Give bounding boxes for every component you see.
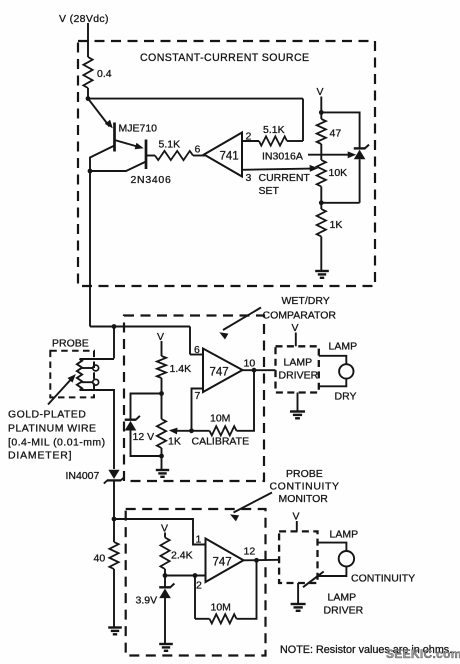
svg-text:V: V <box>293 511 300 523</box>
wire feedback vertical down <box>194 576 196 619</box>
wire lamp driver 2 slash <box>303 572 324 588</box>
dashed box PROBE <box>50 351 94 398</box>
lamp DRY bulb <box>339 364 353 378</box>
wire pin 2 lead <box>165 575 206 577</box>
node J junction (U2 output) <box>252 368 257 373</box>
svg-text:MONITOR: MONITOR <box>279 493 329 505</box>
wire probe branch down <box>113 327 115 359</box>
op-amp U3 747 (continuity) <box>206 539 244 583</box>
resistor R 40 <box>109 542 118 569</box>
svg-text:CONSTANT-CURRENT SOURCE: CONSTANT-CURRENT SOURCE <box>140 52 310 64</box>
wire probe branch to coil top <box>80 358 115 360</box>
node K junction <box>163 573 168 578</box>
wire driver2 to lamp top <box>318 543 347 551</box>
svg-text:CURRENT: CURRENT <box>259 172 311 184</box>
wire feedback top horizontal <box>88 98 303 100</box>
svg-text:5.1K: 5.1K <box>159 139 181 151</box>
svg-text:6: 6 <box>195 144 201 156</box>
svg-text:MJE710: MJE710 <box>119 123 158 135</box>
wire U2 output to lamp driver <box>243 369 276 371</box>
node I junction (pin7/10M) <box>189 428 194 433</box>
arrow into Q2 bar <box>135 143 144 150</box>
wire node H to ground <box>161 456 163 470</box>
svg-text:WET/DRY: WET/DRY <box>282 295 330 307</box>
svg-text:PROBE: PROBE <box>52 338 89 350</box>
svg-text:7: 7 <box>195 390 201 402</box>
svg-text:10M: 10M <box>210 413 230 425</box>
wire V to lamp driver 1 <box>295 333 297 347</box>
wire driver1 to lamp top <box>319 356 347 365</box>
arrow monitor pointer head <box>230 514 239 521</box>
transistor Q1 MJE710 base bar <box>113 123 116 152</box>
wire R40 to ground <box>113 569 115 628</box>
svg-text:1.4K: 1.4K <box>170 363 192 375</box>
svg-text:2.4K: 2.4K <box>171 550 193 562</box>
wire V to R1.4K <box>161 341 163 356</box>
wire feedback vertical to 5.1K <box>302 99 304 141</box>
wire pin 3 to pot wiper <box>242 169 312 170</box>
dashed box CONSTANT-CURRENT SOURCE <box>78 41 375 286</box>
svg-text:SEEKIC.com: SEEKIC.com <box>386 647 460 661</box>
wire pin 7 lead <box>192 389 205 432</box>
probe element (platinum wire) <box>77 359 82 390</box>
wire R1K to ground <box>320 237 322 272</box>
wire electrode 2 <box>81 381 94 383</box>
transistor Q2 2N3406 base bar <box>145 140 148 170</box>
node C junction <box>319 110 324 115</box>
node F junction <box>112 517 117 522</box>
resistor R 47 <box>317 119 326 144</box>
wire U3 output to lamp driver 2 <box>244 559 280 562</box>
svg-text:IN3016A: IN3016A <box>262 151 303 163</box>
svg-text:1: 1 <box>196 534 202 546</box>
svg-text:12 V: 12 V <box>133 431 155 443</box>
svg-text:2: 2 <box>196 580 202 592</box>
wire IN3016A pointer <box>308 154 350 156</box>
resistor R 1K <box>317 209 326 237</box>
wire node C to zener branch <box>321 112 359 148</box>
wire node G to zener 12V <box>131 394 162 420</box>
probe electrode 2 circle <box>93 379 99 385</box>
svg-text:V: V <box>317 86 324 98</box>
resistor R 5.1K (feedback) <box>259 136 287 145</box>
svg-text:1K: 1K <box>330 219 343 231</box>
svg-text:3: 3 <box>246 172 252 184</box>
svg-text:747: 747 <box>213 557 232 569</box>
zener D3 12V <box>125 416 140 431</box>
op-amp U1 741 <box>204 133 242 177</box>
wire monitor pointer <box>234 493 273 513</box>
arrow pot 10K wiper <box>310 165 319 172</box>
wire R1.4K to node G <box>161 378 163 394</box>
resistor R 1.4K <box>157 356 166 378</box>
svg-text:PROBE: PROBE <box>286 468 323 480</box>
wire 10M to output vertical <box>237 370 255 431</box>
node M junction (U3 output) <box>254 558 259 563</box>
wire node D to zener anode <box>321 202 359 204</box>
node B junction <box>88 169 93 174</box>
svg-text:40: 40 <box>94 553 106 565</box>
svg-text:0.4: 0.4 <box>97 68 112 80</box>
node A junction <box>86 96 91 101</box>
wire 5.1K to feedback vertical <box>287 140 303 142</box>
wire R0.4 to node A <box>87 88 89 99</box>
wire Q1 base to Q2 <box>115 140 140 147</box>
op-amp U2 747 (wet/dry) <box>203 349 243 393</box>
svg-text:[0.4-MIL (0.01-mm): [0.4-MIL (0.01-mm) <box>8 437 106 449</box>
dashed box PROBE CONTINUITY MONITOR <box>126 509 266 656</box>
svg-text:10K: 10K <box>329 167 348 179</box>
svg-text:2N3406: 2N3406 <box>131 174 172 186</box>
wire zener to bottom branch <box>359 159 361 203</box>
wire R2.4K to node K <box>164 569 166 576</box>
wire comparator pointer <box>223 308 261 331</box>
wire calibrate to pin7 node <box>175 430 210 432</box>
node D junction <box>319 200 324 205</box>
wire pin6 vertical <box>189 327 191 355</box>
dashed box WET/DRY COMPARATOR <box>124 316 264 482</box>
arrow gold-plated pointer head <box>68 374 76 383</box>
wire R5.1K to pin 6 <box>193 155 205 157</box>
wire V to node C <box>320 97 322 114</box>
svg-text:SET: SET <box>259 185 280 197</box>
wire pin2 to 5.1K feedback <box>242 140 259 142</box>
ground (current set divider) <box>315 271 329 278</box>
svg-text:DRIVER: DRIVER <box>279 370 319 382</box>
svg-text:COMPARATOR: COMPARATOR <box>263 310 337 322</box>
svg-text:PLATINUM WIRE: PLATINUM WIRE <box>8 423 97 435</box>
wire Q2 lower lead <box>90 162 146 172</box>
ground (lamp driver 2) <box>291 604 306 611</box>
svg-text:DRY: DRY <box>335 391 357 403</box>
svg-text:LAMP: LAMP <box>329 341 358 353</box>
dashed box LAMP DRIVER (continuity) <box>279 531 317 583</box>
svg-text:10: 10 <box>244 358 256 370</box>
arrow comparator pointer head <box>219 332 228 339</box>
wire IN4007 to node F <box>113 481 115 519</box>
probe electrode 1 circle <box>93 365 99 371</box>
svg-text:LAMP: LAMP <box>328 592 357 604</box>
wire driver2 to ground <box>297 583 299 604</box>
node H junction <box>159 454 164 459</box>
svg-text:V: V <box>157 331 164 343</box>
svg-text:747: 747 <box>210 367 229 379</box>
wire electrode 1 <box>81 367 94 369</box>
svg-text:6: 6 <box>194 344 200 356</box>
wire feedback to 10M <box>195 618 210 620</box>
potentiometer R 10K <box>317 160 326 187</box>
resistor 0.4 <box>83 57 92 88</box>
dashed box LAMP DRIVER (dry) <box>276 346 319 392</box>
svg-text:CALIBRATE: CALIBRATE <box>192 436 250 448</box>
wire node F to pin 1 <box>114 519 206 545</box>
svg-text:47: 47 <box>330 128 342 140</box>
resistor R 5.1K (input) <box>155 151 193 160</box>
svg-text:DIAMETER]: DIAMETER] <box>8 450 72 462</box>
wire zener 12V to node H <box>131 431 162 457</box>
svg-text:5.1K: 5.1K <box>263 124 285 136</box>
lamp CONTINUITY bulb <box>339 551 354 566</box>
ground (lamp driver 1) <box>290 412 305 419</box>
wire pot 1K to node H <box>161 448 163 456</box>
svg-text:CONTINUITY: CONTINUITY <box>270 481 340 493</box>
svg-text:741: 741 <box>220 151 239 163</box>
svg-text:V: V <box>292 322 299 334</box>
wire node D to R1K <box>320 203 322 209</box>
wire node K to zener 3.9V <box>164 576 166 588</box>
resistor R 2.4K <box>160 538 169 570</box>
zener D4 3.9V <box>159 584 174 599</box>
wire node B down left rail <box>89 171 91 327</box>
wire lamp bottom to driver1 <box>319 379 347 387</box>
wire coil bottom to diode rail <box>80 390 115 469</box>
svg-text:DRIVER: DRIVER <box>324 605 364 617</box>
svg-text:V (28Vdc): V (28Vdc) <box>59 13 109 25</box>
wire left rail to pin 6 horizontal <box>90 326 190 328</box>
svg-text:LAMP: LAMP <box>330 529 359 541</box>
wire V supply to R 0.4 <box>87 23 89 57</box>
wire pin6 into op-amp <box>190 354 204 356</box>
wire Q1 collector diagonal <box>90 146 115 172</box>
resistor R 10M (wet/dry feedback) <box>210 426 237 435</box>
wire driver1 to ground <box>297 393 299 412</box>
node E junction (probe tap) <box>112 324 117 329</box>
arrow pot 1K wiper <box>169 428 178 435</box>
potentiometer R 1K calibrate <box>157 419 166 448</box>
ground (R40) <box>108 628 122 635</box>
wire V to lamp driver 2 <box>296 521 298 531</box>
wire R47 to pot <box>320 144 322 160</box>
svg-text:CONTINUITY: CONTINUITY <box>351 573 415 585</box>
svg-text:3.9V: 3.9V <box>136 595 158 607</box>
resistor R 10M (continuity feedback) <box>210 614 237 623</box>
zener D1 IN3016A <box>354 145 369 160</box>
svg-text:10M: 10M <box>211 602 231 614</box>
wire 10M to output vertical <box>237 560 257 619</box>
wire node F to R40 <box>113 519 115 542</box>
wire V to R2.4K <box>164 533 166 538</box>
arrow Q1 emitter (into base bar) <box>105 120 113 129</box>
ground (calibrate divider) <box>156 470 169 477</box>
diode D2 IN4007 <box>104 470 124 484</box>
svg-text:1K: 1K <box>168 436 181 448</box>
ground (zener 3.9V) <box>159 644 173 651</box>
node G junction <box>159 391 164 396</box>
wire zener 3.9V to ground <box>164 598 166 644</box>
svg-text:12: 12 <box>244 546 256 558</box>
wire Q1 emitter diagonal <box>88 99 110 127</box>
svg-text:IN4007: IN4007 <box>66 470 100 482</box>
arrow gold-plated pointer line <box>48 379 72 405</box>
svg-text:GOLD-PLATED: GOLD-PLATED <box>8 409 86 421</box>
svg-text:LAMP: LAMP <box>284 357 313 369</box>
wire node C to R47 <box>320 112 322 119</box>
wire pot to node D <box>320 187 322 204</box>
wire Q2 to R 5.1K <box>146 155 155 157</box>
wire lamp bottom to driver2 <box>318 566 347 576</box>
node L junction (feedback tap) <box>193 573 198 578</box>
arrow IN3016A pointer <box>348 151 357 158</box>
wire node G to pot 1K <box>161 394 163 420</box>
